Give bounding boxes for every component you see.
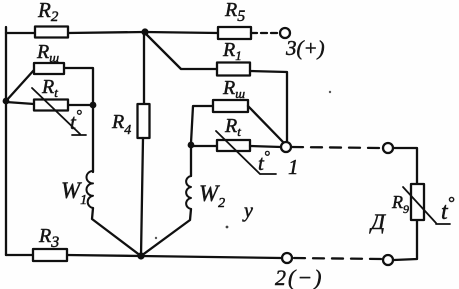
terminal top right: [383, 143, 393, 153]
inductor W1: [61, 171, 93, 208]
svg-text:у: у: [242, 200, 253, 222]
paper speck: [155, 237, 157, 239]
node E (bottom junction): [137, 252, 144, 259]
svg-text:Rш: Rш: [222, 77, 245, 101]
wire bottom right corner: [394, 221, 417, 260]
svg-text:R1: R1: [222, 39, 242, 63]
resistor R3: [33, 225, 67, 261]
terminal 3(+): [280, 28, 325, 60]
node B (left bus junction): [3, 98, 10, 105]
wire Rt-left leads: [6, 102, 90, 105]
wire R5 to terminal 3 (dash-dot): [251, 32, 279, 34]
wire R4 bottom: [141, 138, 143, 256]
wire bottom rail to terminal 2: [141, 256, 281, 258]
svg-text:R4: R4: [111, 111, 131, 138]
svg-text:t°: t°: [258, 149, 270, 175]
paper speck: [226, 226, 229, 229]
wire R2 top leads: [6, 32, 144, 33]
resistor R5: [218, 0, 251, 39]
wire left vertical bus: [5, 27, 7, 255]
svg-text:W1: W1: [61, 178, 87, 208]
resistor Rt right (thermistor): [216, 115, 276, 175]
inductor W2: [186, 176, 225, 211]
wire R1 to terminal 1: [250, 71, 287, 142]
svg-text:Rt: Rt: [224, 115, 241, 139]
resistor R1: [217, 39, 250, 76]
terminal 1: [281, 142, 299, 179]
wire W1 bottom diagonal: [92, 208, 141, 256]
wire Rsh-left leads: [6, 68, 93, 105]
paper speck: [329, 91, 331, 93]
svg-text:2(−): 2(−): [275, 265, 324, 289]
resistor R9 (thermistor of device D): [391, 184, 455, 225]
wire W1 top: [92, 105, 94, 172]
resistor R2: [35, 0, 68, 38]
node C (right of Rt-left): [90, 102, 97, 109]
terminal 2(-) left: [275, 253, 324, 289]
svg-text:t°: t°: [441, 193, 455, 225]
svg-text:R5: R5: [224, 0, 245, 25]
wire R3 leads: [6, 255, 141, 256]
node A (top center junction): [141, 28, 148, 35]
wire W2 bottom diagonal: [141, 209, 191, 256]
resistor R4: [111, 104, 150, 138]
wire W2 top: [190, 145, 192, 176]
svg-text:Rt: Rt: [41, 76, 58, 100]
terminal bottom right: [383, 255, 393, 265]
svg-text:W2: W2: [199, 181, 225, 211]
resistor Rt left (thermistor): [32, 76, 86, 135]
wire dashed bottom rail: [294, 258, 381, 259]
svg-text:R3: R3: [38, 225, 59, 251]
svg-text:3(+): 3(+): [285, 36, 325, 60]
wire R5 lead left: [145, 32, 218, 33]
label D (device): [369, 209, 386, 234]
wire Rsh-right diagonal to terminal 1: [248, 106, 283, 142]
svg-text:1: 1: [288, 155, 299, 179]
wire node A to R1: [145, 33, 217, 69]
wire dashed top rail: [292, 147, 381, 148]
resistor Rsh left: [34, 41, 64, 74]
wire Rsh-right left lead: [191, 106, 213, 143]
svg-text:Д: Д: [369, 209, 386, 234]
wire top right corner: [394, 148, 417, 184]
wire R4 top: [143, 32, 145, 104]
svg-text:R9: R9: [391, 192, 409, 216]
wire Rt-right left lead: [191, 145, 217, 147]
wire Rt-right right lead: [250, 146, 281, 147]
label y (winding u): [242, 200, 253, 222]
svg-text:Rш: Rш: [36, 41, 59, 65]
resistor Rsh right: [213, 77, 248, 112]
node D (junction above W2): [188, 142, 195, 149]
svg-text:R2: R2: [37, 0, 59, 25]
